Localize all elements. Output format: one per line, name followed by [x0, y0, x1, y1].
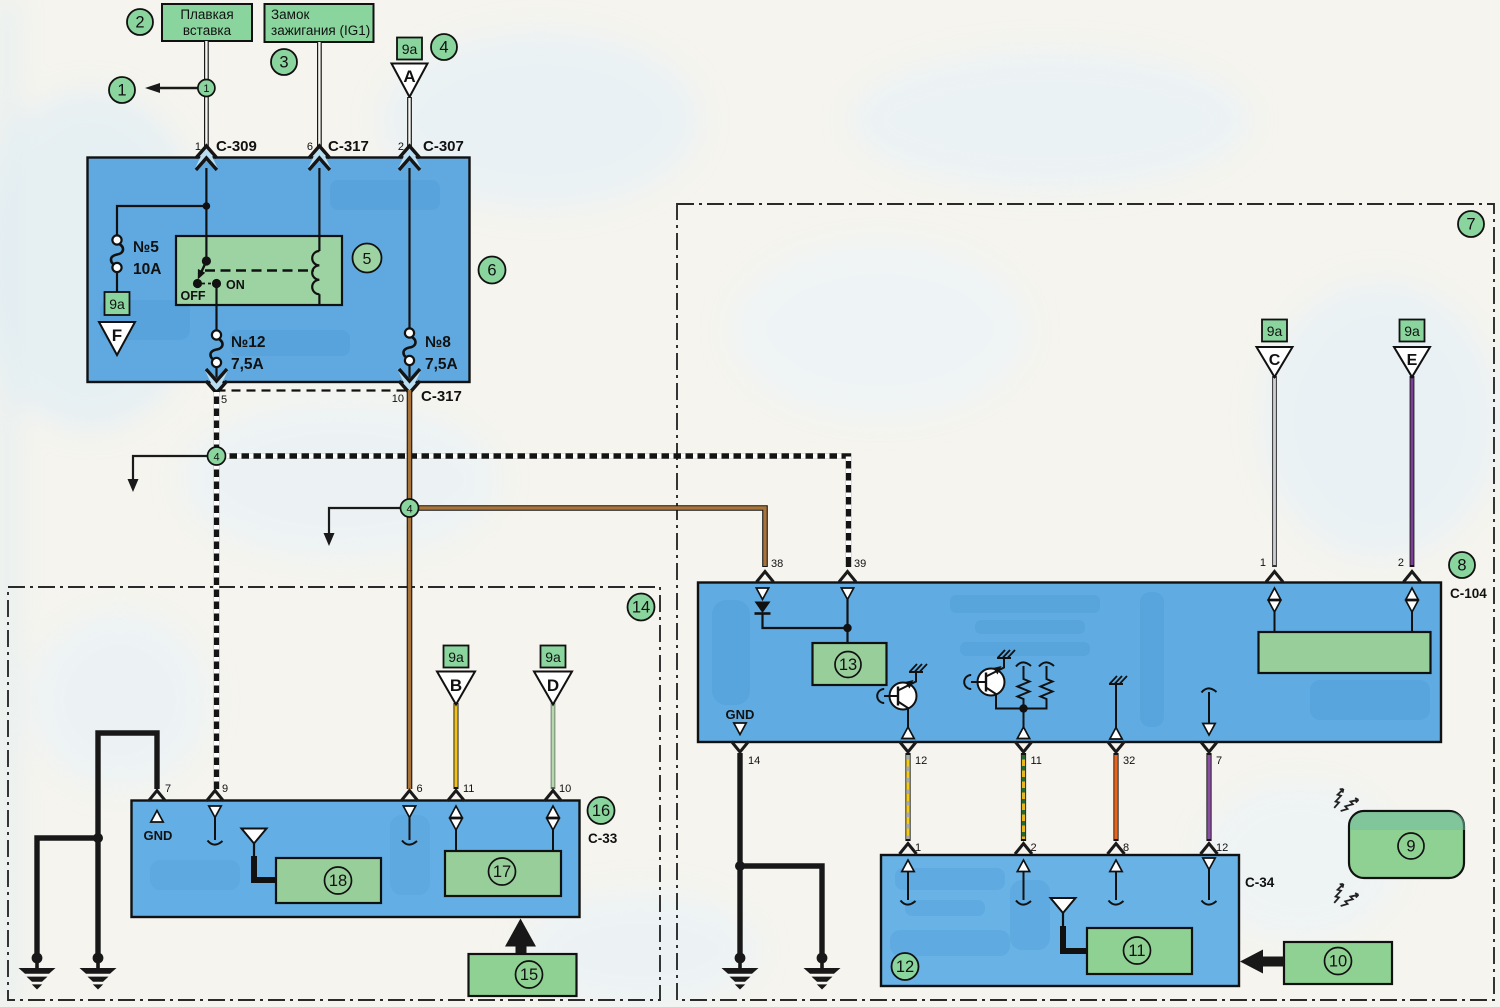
svg-text:9а: 9а: [545, 649, 561, 665]
svg-text:вставка: вставка: [183, 23, 232, 38]
svg-text:39: 39: [854, 558, 866, 570]
svg-text:6: 6: [417, 783, 423, 795]
svg-text:16: 16: [592, 802, 610, 820]
svg-text:OFF: OFF: [181, 289, 206, 303]
svg-text:18: 18: [329, 872, 347, 890]
svg-text:С-34: С-34: [1245, 875, 1275, 890]
svg-text:14: 14: [748, 755, 760, 767]
svg-text:E: E: [1407, 352, 1418, 369]
svg-text:15: 15: [520, 966, 538, 984]
svg-text:Плавкая: Плавкая: [180, 7, 233, 22]
svg-text:10А: 10А: [133, 261, 161, 278]
svg-text:9: 9: [222, 783, 228, 795]
svg-text:10: 10: [1329, 953, 1347, 971]
svg-text:№8: №8: [425, 334, 451, 351]
svg-text:Замок: Замок: [271, 7, 309, 22]
svg-text:10: 10: [559, 783, 571, 795]
svg-text:38: 38: [771, 558, 783, 570]
svg-text:12: 12: [896, 958, 914, 976]
svg-text:D: D: [547, 676, 559, 695]
svg-text:9а: 9а: [1404, 323, 1420, 339]
svg-text:14: 14: [632, 599, 650, 617]
svg-text:7: 7: [1216, 755, 1222, 767]
svg-text:8: 8: [1123, 842, 1129, 854]
svg-text:8: 8: [1457, 557, 1466, 575]
svg-text:A: A: [403, 67, 415, 86]
svg-text:ON: ON: [226, 278, 245, 292]
svg-text:GND: GND: [726, 707, 755, 722]
svg-text:9: 9: [1406, 838, 1415, 856]
svg-text:5: 5: [363, 251, 372, 268]
svg-text:13: 13: [839, 656, 857, 674]
svg-text:11: 11: [463, 783, 474, 795]
svg-text:С-33: С-33: [588, 831, 618, 846]
svg-text:17: 17: [493, 863, 511, 881]
svg-text:9а: 9а: [448, 649, 464, 665]
svg-text:32: 32: [1123, 755, 1135, 767]
svg-text:С-317: С-317: [328, 138, 369, 155]
svg-text:C: C: [1269, 352, 1281, 369]
svg-text:1: 1: [1260, 557, 1266, 569]
svg-text:4: 4: [439, 39, 448, 57]
svg-text:5: 5: [221, 394, 227, 406]
svg-text:B: B: [450, 676, 462, 695]
svg-text:7: 7: [165, 783, 171, 795]
svg-text:С-309: С-309: [216, 138, 257, 155]
svg-text:4: 4: [406, 504, 412, 516]
svg-text:6: 6: [307, 141, 313, 153]
svg-text:1: 1: [117, 82, 126, 100]
svg-text:№12: №12: [231, 334, 266, 351]
svg-text:№5: №5: [133, 239, 159, 256]
svg-text:2: 2: [1398, 557, 1404, 569]
svg-text:12: 12: [1216, 842, 1228, 854]
svg-text:3: 3: [279, 54, 288, 72]
svg-text:6: 6: [487, 262, 496, 280]
svg-text:1: 1: [203, 83, 209, 95]
svg-text:7,5А: 7,5А: [231, 356, 264, 373]
svg-text:F: F: [112, 326, 122, 345]
svg-text:1: 1: [915, 842, 921, 854]
svg-text:11: 11: [1031, 755, 1042, 767]
svg-text:С-317: С-317: [421, 388, 462, 405]
svg-text:9а: 9а: [1267, 323, 1283, 339]
svg-text:9а: 9а: [109, 296, 125, 312]
svg-text:10: 10: [392, 393, 404, 405]
svg-text:зажигания (IG1): зажигания (IG1): [271, 23, 370, 38]
svg-text:С-307: С-307: [423, 138, 464, 155]
svg-text:7: 7: [1466, 216, 1475, 234]
svg-text:GND: GND: [144, 828, 173, 843]
svg-text:11: 11: [1128, 942, 1145, 960]
svg-text:12: 12: [915, 755, 927, 767]
svg-text:С-104: С-104: [1450, 586, 1487, 601]
svg-text:7,5А: 7,5А: [425, 356, 458, 373]
svg-text:2: 2: [1031, 842, 1037, 854]
svg-text:9а: 9а: [402, 41, 418, 57]
svg-text:2: 2: [135, 14, 144, 32]
svg-text:4: 4: [213, 452, 219, 464]
